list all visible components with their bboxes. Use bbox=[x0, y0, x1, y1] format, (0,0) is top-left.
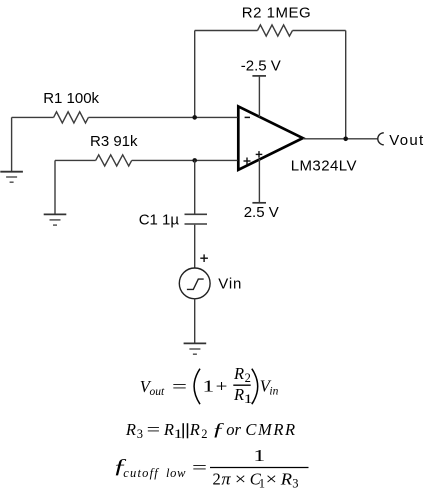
svg-text:Vin: Vin bbox=[218, 275, 242, 292]
wire: R3 vertical down to ground bbox=[54, 160, 56, 214]
svg-text:in: in bbox=[269, 386, 278, 398]
wire: R3 left lead bbox=[55, 159, 96, 161]
node: inverting input junction bbox=[192, 115, 197, 120]
wire: R3 right lead to non-inverting input bbox=[132, 159, 238, 161]
wire: op-amp output bbox=[303, 138, 378, 140]
svg-text:-2.5 V: -2.5 V bbox=[241, 57, 281, 74]
wire: top horizontal right segment from R2 bbox=[293, 30, 346, 32]
supply -2.5 V label bbox=[241, 57, 281, 74]
label R3 91k bbox=[90, 133, 138, 150]
svg-text:out: out bbox=[150, 386, 166, 398]
label C1 1µ bbox=[139, 211, 180, 228]
node: non-inverting input junction bbox=[192, 158, 197, 163]
label + at positive supply pin bbox=[256, 151, 263, 158]
supply 2.5 V bar bbox=[252, 202, 266, 204]
svg-text:3: 3 bbox=[292, 477, 298, 491]
svg-text:1: 1 bbox=[202, 377, 214, 396]
resistor R2 bbox=[258, 25, 293, 36]
svg-text:1: 1 bbox=[259, 477, 265, 491]
svg-text:R: R bbox=[233, 364, 244, 383]
svg-text:R: R bbox=[233, 385, 244, 404]
svg-text:×: × bbox=[235, 470, 246, 489]
svg-text:2: 2 bbox=[213, 470, 221, 489]
wire: feedback right vertical down to output node bbox=[345, 31, 347, 139]
svg-text:=: = bbox=[172, 377, 187, 396]
wire: top horizontal left segment to R2 bbox=[195, 30, 258, 32]
svg-text:R: R bbox=[163, 420, 174, 439]
resistor R3 bbox=[96, 155, 132, 166]
svg-text:1: 1 bbox=[174, 427, 183, 441]
supply 2.5 V label bbox=[244, 204, 279, 221]
svg-text:+: + bbox=[216, 377, 228, 396]
label + at non-inverting input bbox=[244, 158, 251, 165]
resistor R1 bbox=[54, 112, 89, 123]
svg-text:C1 1µ: C1 1µ bbox=[139, 211, 180, 228]
wire: feedback left vertical from inverting node up bbox=[194, 31, 196, 118]
svg-text:1: 1 bbox=[253, 446, 265, 465]
wire: negative supply to op-amp top bbox=[258, 76, 260, 117]
label - at inverting input bbox=[245, 116, 250, 118]
label R2 1MEG bbox=[242, 4, 311, 21]
svg-text:R: R bbox=[280, 470, 292, 489]
svg-text:low: low bbox=[166, 466, 186, 480]
svg-text:=: = bbox=[192, 458, 207, 477]
svg-text:ƒ: ƒ bbox=[212, 419, 225, 439]
wire: C1 top lead bbox=[194, 160, 196, 213]
equation 3: f cutoff low = 1 / (2pi x C1 x R3) bbox=[113, 446, 309, 491]
label Vout bbox=[389, 132, 424, 149]
svg-text:×: × bbox=[266, 470, 277, 489]
svg-text:2.5 V: 2.5 V bbox=[244, 204, 279, 221]
svg-text:2: 2 bbox=[245, 371, 251, 385]
label R1 100k bbox=[43, 90, 99, 107]
wire: Vin to ground bbox=[194, 299, 196, 344]
supply -2.5 V bar bbox=[252, 75, 266, 77]
svg-text:3: 3 bbox=[137, 427, 143, 441]
svg-text:1: 1 bbox=[244, 392, 253, 406]
source Vin (circle) bbox=[179, 268, 210, 299]
label + polarity of Vin bbox=[200, 254, 208, 262]
ground (under R1 input) bbox=[0, 172, 23, 183]
wire: R1 right lead to inverting input bbox=[88, 116, 237, 118]
svg-text:or: or bbox=[226, 420, 241, 439]
svg-text:R: R bbox=[125, 420, 136, 439]
svg-text:π: π bbox=[221, 470, 231, 489]
svg-text:R: R bbox=[189, 420, 200, 439]
terminal Vout (open arc) bbox=[378, 133, 384, 145]
wire: left vertical down to ground bbox=[11, 117, 13, 171]
svg-text:R1 100k: R1 100k bbox=[43, 90, 99, 107]
wire: positive supply from op-amp bottom bbox=[258, 159, 260, 203]
svg-text:LM324LV: LM324LV bbox=[291, 157, 357, 174]
source Vin ramp symbol bbox=[187, 279, 204, 289]
svg-text:R2 1MEG: R2 1MEG bbox=[242, 4, 311, 21]
svg-text:CMRR: CMRR bbox=[245, 420, 296, 439]
wire: R1 left lead bbox=[12, 116, 54, 118]
equation 1: Vout = (1 + R2/R1) Vin bbox=[140, 364, 279, 406]
svg-text:cutoff: cutoff bbox=[123, 466, 159, 480]
node: output junction bbox=[343, 137, 348, 142]
ground (under Vin) bbox=[184, 343, 207, 354]
ground (under R3) bbox=[44, 214, 67, 225]
svg-text:=: = bbox=[147, 420, 161, 439]
op-amp U1 LM324LV triangle bbox=[238, 106, 302, 169]
svg-text:Vout: Vout bbox=[389, 132, 424, 149]
capacitor C1 bbox=[185, 214, 208, 224]
label LM324LV bbox=[291, 157, 357, 174]
wire: C1 bottom lead to source bbox=[194, 225, 196, 268]
svg-text:2: 2 bbox=[201, 427, 207, 441]
label Vin bbox=[218, 275, 242, 292]
svg-text:R3 91k: R3 91k bbox=[90, 133, 138, 150]
equation 2: R3 = R1||R2 for CMRR bbox=[125, 419, 297, 441]
